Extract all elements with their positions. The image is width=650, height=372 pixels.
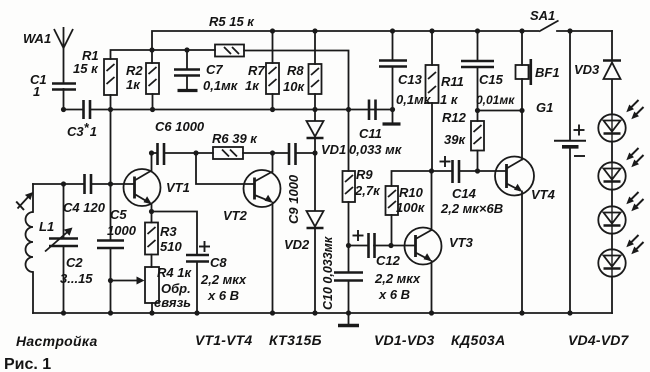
svg-text:100к: 100к bbox=[396, 200, 426, 215]
wire: vertical x=110.5 from bias rail to base wire bbox=[110, 110, 112, 185]
node dot: BF1 VT4 collector node bbox=[519, 108, 524, 113]
wire: bottom ground rail bbox=[33, 312, 612, 314]
node dot: R2 bottom on bias rail bbox=[150, 107, 155, 112]
node dot: top rail R8 bbox=[312, 28, 317, 33]
wire: R1 bottom lead bbox=[110, 95, 112, 110]
resistor R7 bbox=[266, 63, 279, 94]
wire: VT4 emitter to ground rail bbox=[521, 192, 523, 314]
capacitor C6 bbox=[158, 143, 165, 165]
node dot: ground rail C10 bbox=[346, 310, 351, 315]
node dot: C5 wiper junction bbox=[108, 278, 113, 283]
wire: R2 bottom lead bbox=[152, 94, 154, 110]
node dot: C13 bottom ground node bbox=[390, 107, 395, 112]
node dot: C12 R10 VT3 base bbox=[388, 243, 393, 248]
node dot: ground rail R4 bbox=[149, 310, 154, 315]
capacitor C9 bbox=[289, 143, 296, 165]
wire: VT1 emitter node lead bbox=[151, 204, 153, 212]
svg-text:0,033 мк: 0,033 мк bbox=[349, 142, 403, 157]
svg-text:VD3: VD3 bbox=[574, 62, 600, 77]
wire: C6 to R6 node bbox=[164, 152, 213, 154]
resistor R11 bbox=[426, 65, 439, 103]
svg-text:G1: G1 bbox=[536, 100, 553, 115]
svg-text:0,01мк: 0,01мк bbox=[476, 93, 515, 107]
wire: LED4 to ground rail bbox=[611, 277, 613, 313]
node dot: R9 C12 junction bbox=[346, 243, 351, 248]
svg-text:х 6 В: х 6 В bbox=[378, 287, 410, 302]
resistor R2 bbox=[146, 63, 159, 94]
svg-text:R5 15 к: R5 15 к bbox=[209, 14, 255, 29]
svg-text:VT4: VT4 bbox=[531, 187, 556, 202]
wire: R9 top lead bbox=[348, 110, 350, 172]
wire: C13 bottom lead to bias rail end bbox=[392, 67, 394, 110]
switch SA1 bbox=[522, 21, 559, 32]
svg-text:Настройка: Настройка bbox=[16, 333, 98, 349]
svg-text:C9 1000: C9 1000 bbox=[286, 174, 301, 224]
wire: R12 bottom lead bbox=[477, 151, 479, 172]
node dot: ground rail C5 branch bbox=[108, 310, 113, 315]
svg-text:C4 120: C4 120 bbox=[63, 200, 106, 215]
wire: R12 top lead bbox=[477, 111, 479, 122]
wire: node wire C15 to BF1 bottom bbox=[478, 110, 523, 112]
wire: R5 right lead down to node bbox=[244, 51, 349, 110]
svg-text:R4 1к: R4 1к bbox=[157, 265, 192, 280]
wire: wiper link to R4 bbox=[111, 280, 139, 282]
wire: C12 wire left segment bbox=[349, 245, 369, 247]
resistor R12 bbox=[471, 121, 484, 151]
svg-text:VD1-VD3: VD1-VD3 bbox=[374, 332, 435, 348]
node dot: ground rail C8 bbox=[194, 310, 199, 315]
wire: R11 bottom lead down to AF wire bbox=[431, 103, 433, 171]
node dot: R5 R9 on bias rail bbox=[346, 107, 351, 112]
node dot: base wire C5 junction bbox=[108, 181, 113, 186]
node dot: VT1 emitter bbox=[149, 209, 154, 214]
wire: R9 bottom lead to C12 node bbox=[348, 202, 350, 246]
ground chassis bar below rail at C10 bbox=[338, 324, 359, 327]
node dot: top rail SA1 left BF1 bbox=[519, 28, 524, 33]
svg-text:VD4-VD7: VD4-VD7 bbox=[568, 332, 630, 348]
svg-text:R9: R9 bbox=[356, 167, 373, 182]
capacitor C7 bbox=[174, 70, 200, 76]
svg-text:WA1: WA1 bbox=[23, 31, 51, 46]
node dot: C6 R6 VT2 base bbox=[193, 150, 198, 155]
wire: battery branch top bbox=[569, 31, 571, 141]
node dot: ground rail VT4 emitter bbox=[519, 310, 524, 315]
wire: AF wire node to C14 bbox=[432, 170, 453, 172]
svg-text:0,1мк: 0,1мк bbox=[396, 92, 432, 107]
capacitor C10 bbox=[334, 273, 363, 281]
wire: antenna to C1 bbox=[63, 48, 65, 83]
wire: detector bias rail y=109.5 bbox=[64, 109, 84, 111]
svg-text:связь: связь bbox=[154, 295, 191, 310]
svg-text:С8: С8 bbox=[210, 255, 227, 270]
svg-text:SA1: SA1 bbox=[530, 8, 555, 23]
wire: R11 top lead bbox=[431, 31, 433, 65]
node dot: R6 VT2 collector C9 bbox=[270, 150, 275, 155]
wire: node to VD2 anode bbox=[314, 153, 316, 211]
wire: VD2 cathode to ground rail bbox=[314, 229, 316, 313]
wire: top supply rail left section bbox=[152, 31, 522, 63]
node dot: R1 bottom on bias rail bbox=[108, 107, 113, 112]
wire: R3 top lead bbox=[151, 212, 153, 223]
wire: R8 bottom lead bbox=[314, 94, 316, 110]
wire: interstage wire y=153 VT1 to C6 bbox=[152, 152, 158, 154]
ground chassis bar at C7 bbox=[178, 89, 198, 92]
wire: AF wire C14 to R12 node to VT4 base bbox=[459, 170, 507, 172]
wire: C7 top lead bbox=[186, 50, 188, 70]
capacitor C13 bbox=[379, 61, 407, 67]
svg-text:2,7к: 2,7к bbox=[354, 183, 381, 198]
wire: battery bottom to ground rail bbox=[569, 147, 571, 314]
capacitor C11 bbox=[369, 100, 376, 121]
wire: VT4 collector lead bbox=[521, 111, 523, 160]
wire: R6 to VT2 collector node bbox=[243, 152, 289, 154]
node dot: C7 top bbox=[184, 47, 189, 52]
wire: R10 top corner to AF wire bbox=[392, 171, 432, 186]
diode VD1 bbox=[307, 121, 324, 138]
capacitor C8 polarized bbox=[186, 255, 209, 262]
node dot: top rail R7 bbox=[270, 28, 275, 33]
wire: C15 top lead bbox=[477, 31, 479, 61]
potentiometer R4 bbox=[137, 267, 160, 303]
svg-text:C12: C12 bbox=[376, 253, 401, 268]
wire: bias rail after C3 bbox=[90, 109, 392, 111]
plus mark of C14 bbox=[440, 156, 451, 167]
resistor R3 bbox=[145, 223, 158, 255]
capacitor C4 bbox=[85, 174, 92, 194]
wire: C1 to bias rail bbox=[63, 89, 65, 110]
wire: BF1 top lead bbox=[521, 31, 523, 65]
svg-text:VT1: VT1 bbox=[166, 180, 190, 195]
svg-text:0,1мк: 0,1мк bbox=[203, 78, 239, 93]
wire: R8 top lead bbox=[314, 31, 316, 64]
node dot: ground rail VD2 bbox=[312, 310, 317, 315]
wire: LED3 to LED4 bbox=[611, 234, 613, 250]
LED VD7 bbox=[598, 235, 643, 277]
wire: R10 bottom lead bbox=[391, 215, 393, 246]
svg-text:C6 1000: C6 1000 bbox=[155, 119, 205, 134]
wire: VT3 emitter to ground rail bbox=[431, 261, 433, 313]
svg-text:х 6 В: х 6 В bbox=[207, 288, 239, 303]
ground chassis bar at C13 bbox=[383, 122, 401, 125]
capacitor C15 bbox=[461, 61, 494, 67]
svg-text:C7: C7 bbox=[206, 62, 223, 77]
svg-text:2,2 мкх: 2,2 мкх bbox=[200, 272, 247, 287]
wire: top supply rail right section bbox=[557, 30, 612, 32]
svg-text:3...15: 3...15 bbox=[60, 271, 93, 286]
wire: R7 bottom lead bbox=[272, 94, 274, 110]
svg-text:C14: C14 bbox=[452, 186, 477, 201]
wire: C13 top lead bbox=[392, 31, 394, 61]
node dot: R8 VD1 on bias rail bbox=[312, 107, 317, 112]
wire: C6/R6 node down and to VT2 base bbox=[196, 153, 255, 184]
svg-text:2,2 мк×6В: 2,2 мк×6В bbox=[440, 201, 503, 216]
antenna WA1 bbox=[54, 27, 73, 48]
svg-text:1 к: 1 к bbox=[440, 92, 459, 107]
earphone BF1 bbox=[516, 59, 531, 85]
wire: VT3 collector lead up bbox=[431, 171, 433, 230]
svg-text:1к: 1к bbox=[126, 77, 141, 92]
battery G1 bbox=[554, 125, 586, 157]
wire: tuning tank top wire y=184 bbox=[33, 183, 84, 185]
resistor R6 bbox=[213, 147, 243, 159]
svg-text:R12: R12 bbox=[442, 110, 467, 125]
diode VD2 bbox=[307, 211, 324, 228]
plus mark of C12 bbox=[353, 230, 364, 241]
node dot: top rail R11 bbox=[429, 28, 434, 33]
wire: LED chain drop from rail corner bbox=[611, 31, 613, 61]
wire: VD3 to LED1 bbox=[611, 79, 613, 114]
wire: R4 bottom lead bbox=[151, 303, 153, 313]
variable capacitor C2 bbox=[45, 228, 78, 252]
svg-text:C3*1: C3*1 bbox=[67, 120, 97, 139]
wire: L1 bottom lead bbox=[32, 272, 34, 313]
wire: LED2 to LED3 bbox=[611, 190, 613, 207]
wire: VT2 collector lead bbox=[272, 153, 274, 172]
wire: ground stub below rail at C10 bbox=[348, 313, 350, 324]
node dot: AF wire R12 bottom bbox=[475, 168, 480, 173]
capacitor C5 bbox=[97, 241, 124, 249]
wire: C5 branch below base wire bbox=[110, 184, 112, 241]
svg-text:VT2: VT2 bbox=[223, 208, 248, 223]
node dot: C9 VD1 VD2 bbox=[312, 150, 317, 155]
LED VD5 bbox=[598, 148, 643, 190]
svg-text:R2: R2 bbox=[126, 63, 143, 78]
wire: BF1 bottom lead bbox=[521, 79, 523, 111]
node dot: ground rail C2 bbox=[61, 310, 66, 315]
svg-text:VT3: VT3 bbox=[449, 235, 474, 250]
transistor VT2 bbox=[244, 170, 281, 207]
svg-text:C13: C13 bbox=[398, 72, 423, 87]
svg-text:VD1: VD1 bbox=[321, 142, 346, 157]
transistor VT1 bbox=[124, 169, 161, 206]
capacitor C3 bbox=[84, 100, 91, 119]
svg-text:R10: R10 bbox=[399, 185, 424, 200]
wire: C15 bottom lead bbox=[477, 67, 479, 111]
svg-text:510: 510 bbox=[160, 239, 182, 254]
node dot: top rail SA1 right battery bbox=[567, 28, 572, 33]
node dot: tank C2 top bbox=[61, 181, 66, 186]
svg-text:10к: 10к bbox=[283, 79, 305, 94]
resistor R10 bbox=[386, 186, 399, 215]
wire: C7 bottom lead to chassis bbox=[186, 76, 188, 89]
capacitor C14 polarized bbox=[453, 160, 460, 183]
LED VD4 bbox=[598, 100, 643, 142]
wire: VD1 cathode to node y=153 bbox=[314, 139, 316, 154]
diode VD3 bbox=[603, 61, 621, 80]
wire: VT2 emitter to ground rail bbox=[272, 203, 274, 314]
wire: VD1 top lead bbox=[314, 110, 316, 122]
svg-text:Рис. 1: Рис. 1 bbox=[4, 356, 51, 372]
node dot: VT1 collector C6 bbox=[149, 150, 154, 155]
wire: C8 bottom to ground rail bbox=[196, 262, 198, 314]
wire: LED1 to LED2 bbox=[611, 142, 613, 163]
resistor R5 bbox=[215, 45, 244, 57]
svg-text:R11: R11 bbox=[441, 74, 464, 89]
node dot: C15 R12 BF1 node left bbox=[475, 108, 480, 113]
wire: C5 to wiper node to ground rail bbox=[110, 248, 112, 313]
svg-text:C5: C5 bbox=[110, 207, 127, 222]
wire: C10 top lead bbox=[348, 246, 350, 273]
node dot: ground rail VT2 emitter bbox=[270, 310, 275, 315]
wire: C2 top lead bbox=[63, 184, 65, 239]
svg-text:1к: 1к bbox=[245, 78, 260, 93]
node dot: top rail C15 bbox=[475, 28, 480, 33]
svg-text:КД503А: КД503А bbox=[451, 332, 506, 348]
svg-text:L1: L1 bbox=[39, 219, 54, 234]
node dot: ground rail battery bbox=[567, 310, 572, 315]
wire: C2 bottom lead bbox=[63, 246, 65, 313]
node dot: R2 top bias crossing bbox=[149, 47, 154, 52]
wire: L1 top lead bbox=[32, 184, 34, 212]
svg-text:R8: R8 bbox=[287, 63, 304, 78]
svg-text:R7: R7 bbox=[248, 63, 265, 78]
wire: ground stub below C13 node bbox=[392, 110, 394, 123]
wire: R5 left bias wire y=50 bbox=[111, 50, 216, 59]
svg-text:1: 1 bbox=[33, 84, 40, 99]
capacitor C1 bbox=[52, 84, 76, 90]
svg-text:Обр.: Обр. bbox=[161, 281, 191, 296]
transistor VT3 bbox=[405, 228, 442, 265]
wire: R3 to R4 link bbox=[151, 255, 153, 268]
svg-text:2,2 мкх: 2,2 мкх bbox=[374, 271, 421, 286]
node dot: R7 bottom on bias rail bbox=[270, 107, 275, 112]
wire: base wire after C4 bbox=[91, 183, 135, 185]
svg-text:39к: 39к bbox=[444, 132, 466, 147]
svg-text:C2: C2 bbox=[66, 255, 83, 270]
wire: C10 bottom to ground rail bbox=[348, 281, 350, 314]
node dot: antenna C3 junction bbox=[61, 107, 66, 112]
wire: R7 top lead bbox=[272, 31, 274, 63]
svg-text:R3: R3 bbox=[160, 224, 177, 239]
node dot: top rail C13 bbox=[390, 28, 395, 33]
wire: emitter node to C8 bbox=[152, 212, 198, 256]
inductor L1 variable bbox=[16, 192, 33, 272]
node dot: ground rail VT3 emitter bbox=[429, 310, 434, 315]
svg-text:BF1: BF1 bbox=[535, 65, 560, 80]
svg-text:КТ315Б: КТ315Б bbox=[269, 332, 322, 348]
resistor R8 bbox=[309, 64, 322, 94]
svg-text:C15: C15 bbox=[479, 72, 504, 87]
plus mark of C8 bbox=[199, 241, 210, 252]
svg-text:R6 39 к: R6 39 к bbox=[212, 131, 258, 146]
node dot: AF wire R11 VT3 collector bbox=[429, 168, 434, 173]
capacitor C12 polarized bbox=[369, 233, 375, 258]
LED VD6 bbox=[598, 192, 643, 234]
wire: VT1 collector lead to interstage wire bbox=[151, 153, 153, 171]
wire: C12 right to VT3 base bbox=[374, 245, 416, 247]
svg-text:15 к: 15 к bbox=[73, 61, 99, 76]
svg-text:VD2: VD2 bbox=[284, 237, 310, 252]
resistor R1 bbox=[104, 59, 117, 95]
svg-text:C11: C11 bbox=[359, 126, 382, 141]
transistor VT4 bbox=[495, 157, 534, 196]
wire: C9 to diode node bbox=[296, 152, 315, 154]
svg-text:С10 0,033мк: С10 0,033мк bbox=[321, 236, 335, 310]
svg-text:1000: 1000 bbox=[107, 223, 137, 238]
svg-text:VT1-VT4: VT1-VT4 bbox=[195, 332, 252, 348]
resistor R9 bbox=[343, 171, 356, 202]
